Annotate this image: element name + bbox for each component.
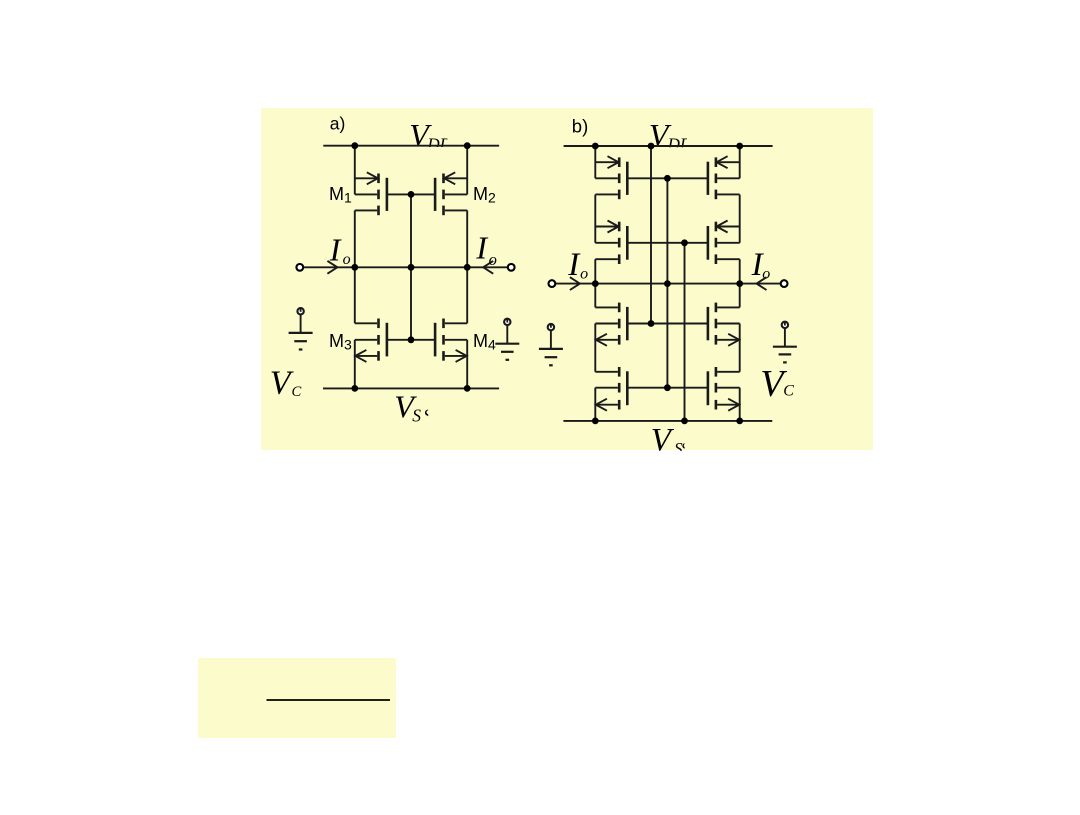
Io wire middle (a)	[355, 266, 467, 268]
gate wire M1	[387, 193, 411, 195]
junction VDD/left stack	[592, 143, 599, 150]
transistor Q2 (b, row2 left)	[595, 221, 627, 265]
transistor Q4 (b, row4 left)	[595, 367, 627, 411]
gate wire M3	[387, 339, 411, 341]
wire Io-right node to Q7 drain	[739, 284, 741, 308]
wire M4 body/source to VSS	[466, 340, 468, 389]
Io input arrow right (b)	[757, 277, 767, 290]
junction VDD/bus A	[648, 143, 655, 150]
transistor Q8 (b, row4 right)	[708, 367, 740, 411]
junction gate row3/bus A	[648, 320, 655, 327]
junction VSS/left stack	[592, 418, 599, 425]
transistor M4	[435, 319, 467, 362]
svg-text:S: S	[412, 406, 421, 426]
svg-text:a): a)	[330, 113, 346, 133]
gate row 1	[627, 177, 708, 179]
wire Io node down to M3 drain	[354, 267, 356, 323]
junction Io/center bus node	[408, 264, 415, 271]
ground symbol G1 (left of a)	[289, 308, 313, 350]
junction Io-right node (b)	[736, 280, 743, 287]
Io wire left (b)	[556, 283, 595, 285]
junction VDD/M1 drain	[351, 142, 358, 149]
Io input arrow left (a)	[327, 261, 337, 274]
bus B: gate row1 / Io / gate row4	[666, 178, 668, 387]
transistor Q7 (b, row3 right)	[708, 303, 740, 346]
junction gate row1/bus B	[664, 175, 671, 182]
wire Q1 source to Q2 left	[594, 195, 596, 243]
junction VSS/M3 source	[351, 385, 358, 392]
svg-text:o: o	[489, 250, 497, 269]
gate row 4	[627, 387, 708, 389]
VDD rail (b)	[564, 145, 773, 147]
Io input arrow left (b)	[570, 277, 580, 290]
junction gate row4/bus B	[664, 384, 671, 391]
transistor M1	[355, 172, 387, 215]
label VDD (a), subscript clipped under rail	[409, 117, 452, 154]
wire VDD to Q1 left	[594, 146, 596, 178]
wire Q4 source to VSS	[594, 388, 596, 421]
Io input arrow right (a)	[483, 261, 493, 274]
gate wire M2	[411, 193, 435, 195]
junction Io-left node	[351, 264, 358, 271]
ground symbol G3 (left of b)	[539, 324, 563, 365]
terminal circle left (a)	[296, 264, 303, 271]
transistor M3	[355, 319, 387, 362]
junction VSS/M4 source	[464, 385, 471, 392]
fraction bar	[267, 699, 391, 701]
junction VSS/bus C	[681, 418, 688, 425]
gate row 3	[627, 323, 708, 325]
transistor Q5 (b, row1 right)	[708, 156, 740, 199]
junction VDD/M2 drain	[464, 142, 471, 149]
gate row 2	[627, 242, 708, 244]
wire VDD to Q5 right	[739, 146, 741, 178]
bus C: gate row2 to VSS	[684, 243, 686, 421]
wire Q6 source to Io-right node	[739, 259, 741, 283]
Io wire left (a)	[304, 266, 355, 268]
wire Q7 source to Q8 drain	[739, 324, 741, 372]
Io wire middle (b)	[595, 283, 739, 285]
label VSS (b), clipped at panel edge	[651, 423, 689, 459]
terminal circle right (a)	[508, 264, 515, 271]
yellow panel (formula box, bottom-left)	[198, 658, 396, 738]
wire Io-left node to Q3 drain	[594, 284, 596, 308]
wire M2 source down to Io node	[466, 210, 468, 267]
svg-text:I: I	[329, 231, 342, 267]
transistor Q6 (b, row2 right)	[708, 221, 740, 265]
svg-text:C: C	[783, 382, 794, 399]
Io wire right (b)	[740, 283, 780, 285]
transistor Q1 (b, row1 left)	[595, 156, 627, 199]
svg-text:o: o	[580, 266, 588, 283]
junction M1/M2 gates node	[408, 191, 415, 198]
junction M3/M4 gates node	[408, 336, 415, 343]
wire M1 drain/body to VDD	[354, 146, 356, 195]
ground symbol G4 (right of b)	[773, 322, 797, 363]
label VDD (b), subscript clipped under rail	[649, 117, 693, 154]
terminal circle right (b)	[781, 280, 788, 287]
wire M1 source down to Io node	[354, 210, 356, 267]
svg-text:b): b)	[572, 115, 588, 136]
VSS rail (a)	[323, 387, 499, 389]
svg-text:I: I	[475, 229, 488, 265]
wire Io node down to M4 drain	[466, 267, 468, 323]
junction gate row2/bus C	[681, 239, 688, 246]
terminal circle left (b)	[549, 280, 556, 287]
junction VSS/right stack	[736, 418, 743, 425]
wire Q8 source to VSS	[739, 388, 741, 421]
yellow panel (schematic background)	[261, 108, 873, 450]
wire M3 body/source to VSS	[354, 340, 356, 389]
bus A: VDD to gate row 3	[650, 146, 652, 324]
wire M2 drain/body to VDD	[466, 146, 468, 195]
VDD rail (a)	[323, 145, 499, 147]
transistor Q3 (b, row3 left)	[595, 303, 627, 346]
svg-text:C: C	[292, 384, 302, 400]
svg-text:o: o	[762, 266, 770, 283]
junction Io-right node	[464, 264, 471, 271]
junction Io/bus B node	[664, 280, 671, 287]
ground symbol G2 (right of a)	[495, 319, 519, 360]
transistor M2	[435, 172, 467, 215]
wire Q3 source to Q4 drain	[594, 324, 596, 372]
wire Q5 source to Q6 right	[739, 195, 741, 243]
Io wire right (a)	[467, 266, 507, 268]
center gate bus (a)	[410, 194, 412, 339]
junction VDD/right stack	[736, 143, 743, 150]
svg-text:o: o	[343, 251, 351, 268]
gate wire M4	[411, 339, 435, 341]
wire Q2 source to Io-left node	[594, 259, 596, 283]
VSS rail (b)	[563, 420, 772, 422]
junction Io-left node (b)	[592, 280, 599, 287]
